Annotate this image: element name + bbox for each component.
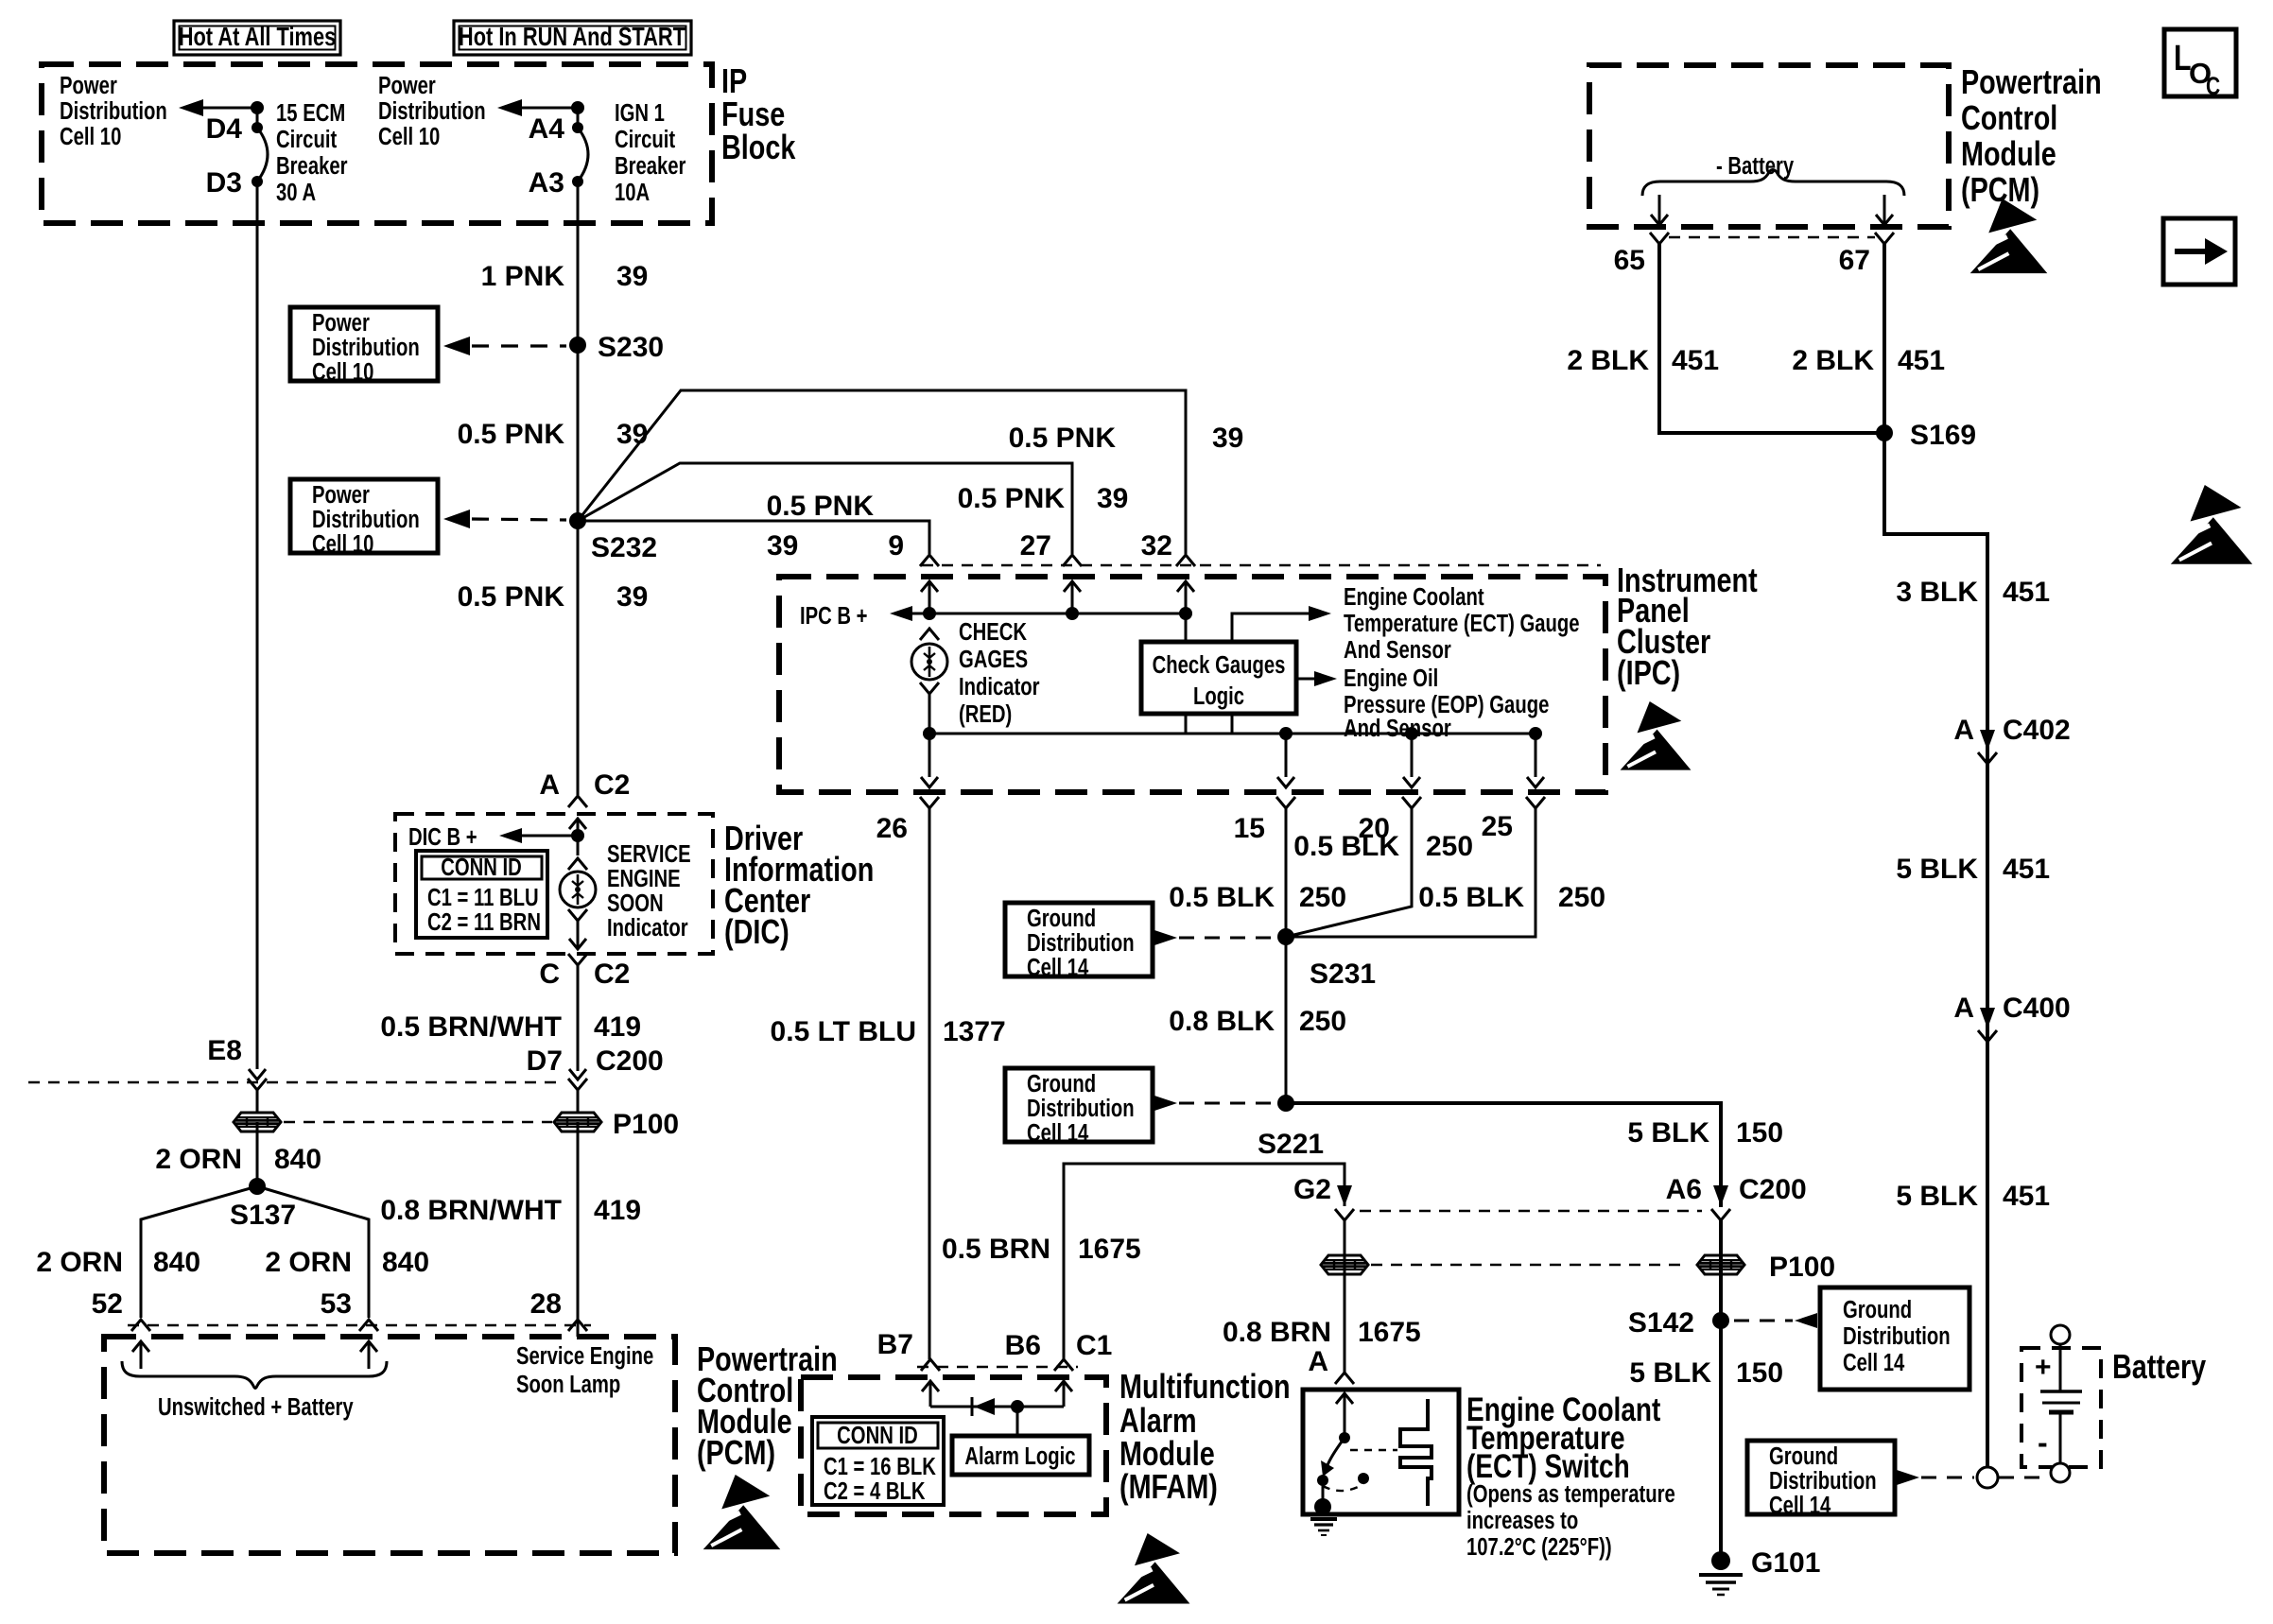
svg-text:Power: Power	[312, 481, 370, 509]
svg-text:39: 39	[767, 530, 798, 561]
svg-text:15: 15	[1234, 813, 1265, 844]
svg-text:451: 451	[2003, 1181, 2050, 1212]
svg-text:Engine Coolant: Engine Coolant	[1344, 583, 1484, 611]
svg-text:Indicator: Indicator	[607, 914, 688, 942]
svg-text:C1: C1	[1076, 1330, 1112, 1361]
svg-text:Ground: Ground	[1769, 1443, 1838, 1470]
svg-text:2 ORN: 2 ORN	[155, 1144, 242, 1175]
svg-text:And Sensor: And Sensor	[1344, 715, 1451, 742]
svg-text:C2: C2	[594, 769, 630, 801]
svg-text:G101: G101	[1751, 1547, 1820, 1579]
svg-text:C2 = 11 BRN: C2 = 11 BRN	[427, 908, 541, 936]
svg-text:Control: Control	[1961, 98, 2057, 137]
svg-text:1675: 1675	[1078, 1234, 1141, 1265]
svg-text:A: A	[1953, 993, 1974, 1024]
svg-text:Cell 10: Cell 10	[378, 123, 440, 150]
svg-text:840: 840	[153, 1247, 200, 1278]
svg-text:26: 26	[876, 813, 908, 844]
svg-text:CONN ID: CONN ID	[441, 854, 522, 881]
svg-text:C: C	[539, 959, 560, 990]
svg-text:451: 451	[2003, 577, 2050, 608]
svg-text:(DIC): (DIC)	[724, 912, 789, 951]
svg-text:451: 451	[1672, 345, 1719, 376]
svg-text:Power: Power	[378, 72, 436, 99]
svg-text:C1 = 16 BLK: C1 = 16 BLK	[824, 1453, 936, 1480]
svg-text:SERVICE: SERVICE	[607, 840, 691, 868]
svg-text:G2: G2	[1293, 1174, 1331, 1205]
svg-text:E8: E8	[207, 1035, 242, 1066]
svg-text:A: A	[1308, 1346, 1328, 1377]
svg-text:1377: 1377	[943, 1016, 1006, 1047]
svg-text:Cell 10: Cell 10	[60, 123, 121, 150]
svg-text:B6: B6	[1005, 1330, 1041, 1361]
svg-text:(PCM): (PCM)	[697, 1433, 775, 1472]
svg-text:Cell 14: Cell 14	[1027, 1119, 1088, 1147]
svg-text:Breaker: Breaker	[276, 152, 347, 180]
svg-text:2 BLK: 2 BLK	[1792, 345, 1874, 376]
svg-text:C: C	[2206, 73, 2220, 101]
svg-text:0.5 BLK: 0.5 BLK	[1418, 882, 1524, 913]
svg-text:S231: S231	[1310, 959, 1376, 990]
svg-text:C2 = 4 BLK: C2 = 4 BLK	[824, 1477, 926, 1505]
svg-text:419: 419	[594, 1195, 641, 1226]
svg-text:32: 32	[1141, 530, 1172, 561]
svg-text:C200: C200	[596, 1045, 664, 1077]
svg-text:451: 451	[2003, 854, 2050, 885]
svg-text:1 PNK: 1 PNK	[481, 261, 565, 292]
svg-text:SOON: SOON	[607, 890, 664, 917]
svg-text:P100: P100	[613, 1109, 679, 1140]
svg-text:CONN ID: CONN ID	[837, 1422, 918, 1449]
svg-text:Engine Oil: Engine Oil	[1344, 665, 1438, 692]
svg-text:GAGES: GAGES	[959, 646, 1028, 673]
svg-text:5 BLK: 5 BLK	[1627, 1117, 1709, 1149]
svg-text:Distribution: Distribution	[1843, 1322, 1951, 1350]
svg-text:A: A	[539, 769, 560, 801]
svg-text:C2: C2	[594, 959, 630, 990]
svg-text:25: 25	[1482, 811, 1513, 842]
svg-text:2 ORN: 2 ORN	[265, 1247, 352, 1278]
svg-text:451: 451	[1898, 345, 1945, 376]
svg-text:Logic: Logic	[1193, 682, 1244, 710]
svg-text:Unswitched + Battery: Unswitched + Battery	[158, 1393, 354, 1421]
svg-text:250: 250	[1558, 882, 1605, 913]
svg-text:A6: A6	[1666, 1174, 1702, 1205]
svg-text:5 BLK: 5 BLK	[1896, 854, 1978, 885]
svg-text:A3: A3	[529, 167, 564, 199]
svg-text:Ground: Ground	[1843, 1296, 1912, 1323]
svg-text:Block: Block	[721, 128, 796, 166]
svg-text:0.5 PNK: 0.5 PNK	[958, 483, 1066, 514]
svg-text:250: 250	[1426, 831, 1473, 862]
svg-text:C200: C200	[1739, 1174, 1807, 1205]
svg-text:52: 52	[92, 1288, 123, 1320]
svg-text:0.5 PNK: 0.5 PNK	[1009, 423, 1117, 454]
svg-text:IGN 1: IGN 1	[615, 99, 665, 127]
svg-text:ENGINE: ENGINE	[607, 865, 681, 892]
svg-text:Distribution: Distribution	[312, 334, 420, 361]
svg-text:S221: S221	[1258, 1129, 1324, 1160]
svg-text:S230: S230	[598, 332, 664, 363]
svg-text:B7: B7	[877, 1329, 913, 1360]
svg-text:Powertrain: Powertrain	[1961, 62, 2102, 101]
svg-text:(PCM): (PCM)	[1961, 170, 2039, 209]
svg-text:C400: C400	[2003, 993, 2071, 1024]
svg-text:0.5 PNK: 0.5 PNK	[767, 491, 875, 522]
svg-text:And Sensor: And Sensor	[1344, 636, 1451, 664]
svg-text:Power: Power	[312, 309, 370, 337]
svg-text:IPC B +: IPC B +	[800, 602, 868, 630]
svg-text:Module: Module	[1961, 134, 2056, 173]
svg-text:107.2°C (225°F)): 107.2°C (225°F))	[1466, 1533, 1612, 1561]
svg-text:Battery: Battery	[2112, 1347, 2206, 1386]
svg-text:250: 250	[1299, 882, 1346, 913]
svg-text:S137: S137	[230, 1200, 296, 1231]
svg-text:2 ORN: 2 ORN	[36, 1247, 123, 1278]
svg-text:Distribution: Distribution	[1769, 1467, 1877, 1494]
svg-text:Hot In RUN And START: Hot In RUN And START	[459, 22, 686, 51]
svg-text:1675: 1675	[1358, 1317, 1421, 1348]
svg-text:5 BLK: 5 BLK	[1629, 1357, 1711, 1389]
svg-text:67: 67	[1839, 245, 1870, 276]
svg-text:27: 27	[1020, 530, 1051, 561]
svg-text:5 BLK: 5 BLK	[1896, 1181, 1978, 1212]
svg-text:Hot At All Times: Hot At All Times	[179, 22, 337, 51]
svg-text:419: 419	[594, 1011, 641, 1043]
svg-text:Ground: Ground	[1027, 1070, 1096, 1097]
svg-text:(RED): (RED)	[959, 700, 1012, 728]
svg-text:P100: P100	[1769, 1252, 1835, 1283]
svg-text:Distribution: Distribution	[1027, 1095, 1135, 1122]
svg-text:840: 840	[382, 1247, 429, 1278]
svg-text:+: +	[2035, 1352, 2052, 1383]
svg-text:(IPC): (IPC)	[1617, 653, 1680, 692]
svg-text:0.5 LT BLU: 0.5 LT BLU	[771, 1016, 916, 1047]
svg-text:Indicator: Indicator	[959, 673, 1040, 700]
svg-text:Service Engine: Service Engine	[516, 1342, 653, 1370]
svg-text:0.8 BLK: 0.8 BLK	[1169, 1006, 1275, 1037]
svg-text:S142: S142	[1628, 1307, 1694, 1339]
svg-text:39: 39	[616, 261, 648, 292]
svg-text:Temperature (ECT) Gauge: Temperature (ECT) Gauge	[1344, 610, 1580, 637]
svg-text:(MFAM): (MFAM)	[1119, 1467, 1218, 1506]
svg-text:Ground: Ground	[1027, 905, 1096, 932]
svg-text:S232: S232	[591, 532, 657, 563]
svg-text:39: 39	[616, 581, 648, 613]
svg-text:0.5 BLK: 0.5 BLK	[1293, 831, 1399, 862]
svg-text:DIC B +: DIC B +	[408, 823, 477, 851]
svg-text:Check Gauges: Check Gauges	[1153, 651, 1286, 679]
svg-text:Breaker: Breaker	[615, 152, 685, 180]
svg-text:S169: S169	[1910, 420, 1976, 451]
svg-text:0.8 BRN/WHT: 0.8 BRN/WHT	[380, 1195, 562, 1226]
svg-text:0.5 BRN: 0.5 BRN	[942, 1234, 1050, 1265]
svg-text:C402: C402	[2003, 715, 2071, 746]
svg-text:Cell 10: Cell 10	[312, 530, 373, 558]
svg-text:39: 39	[616, 419, 648, 450]
svg-text:39: 39	[1097, 483, 1128, 514]
svg-text:15 ECM: 15 ECM	[276, 99, 345, 127]
svg-text:39: 39	[1212, 423, 1243, 454]
svg-text:Distribution: Distribution	[1027, 929, 1135, 957]
svg-text:Alarm Logic: Alarm Logic	[964, 1443, 1075, 1470]
svg-text:9: 9	[888, 530, 904, 561]
svg-text:28: 28	[530, 1288, 562, 1320]
svg-text:10A: 10A	[615, 179, 650, 206]
svg-text:D4: D4	[206, 113, 243, 145]
svg-text:2 BLK: 2 BLK	[1567, 345, 1649, 376]
svg-text:- Battery: - Battery	[1716, 152, 1794, 180]
svg-text:Circuit: Circuit	[615, 126, 675, 153]
svg-text:(Opens as temperature: (Opens as temperature	[1466, 1480, 1675, 1508]
svg-text:-: -	[2038, 1425, 2048, 1460]
svg-text:Distribution: Distribution	[312, 506, 420, 533]
svg-text:A4: A4	[529, 113, 565, 145]
svg-text:Cell 14: Cell 14	[1769, 1492, 1831, 1519]
svg-text:250: 250	[1299, 1006, 1346, 1037]
svg-text:D7: D7	[527, 1045, 563, 1077]
svg-text:150: 150	[1736, 1357, 1783, 1389]
svg-text:A: A	[1953, 715, 1974, 746]
svg-text:Power: Power	[60, 72, 117, 99]
svg-text:150: 150	[1736, 1117, 1783, 1149]
svg-text:D3: D3	[206, 167, 242, 199]
svg-text:0.5 PNK: 0.5 PNK	[458, 419, 565, 450]
svg-text:0.5 BRN/WHT: 0.5 BRN/WHT	[380, 1011, 562, 1043]
svg-text:840: 840	[274, 1144, 321, 1175]
svg-text:C1 = 11 BLU: C1 = 11 BLU	[427, 884, 539, 911]
svg-text:65: 65	[1614, 245, 1645, 276]
svg-text:0.8 BRN: 0.8 BRN	[1223, 1317, 1331, 1348]
svg-text:CHECK: CHECK	[959, 618, 1027, 646]
svg-text:Circuit: Circuit	[276, 126, 337, 153]
svg-text:Distribution: Distribution	[378, 97, 486, 125]
svg-text:Distribution: Distribution	[60, 97, 167, 125]
svg-text:3 BLK: 3 BLK	[1896, 577, 1978, 608]
svg-text:Cell 14: Cell 14	[1843, 1349, 1904, 1376]
svg-text:increases to: increases to	[1466, 1507, 1578, 1534]
svg-text:Cell 14: Cell 14	[1027, 954, 1088, 981]
svg-text:53: 53	[321, 1288, 352, 1320]
svg-text:Soon Lamp: Soon Lamp	[516, 1371, 620, 1398]
svg-text:0.5 BLK: 0.5 BLK	[1169, 882, 1275, 913]
svg-text:30 A: 30 A	[276, 179, 316, 206]
svg-text:Cell 10: Cell 10	[312, 358, 373, 386]
svg-text:0.5 PNK: 0.5 PNK	[458, 581, 565, 613]
svg-text:Multifunction: Multifunction	[1119, 1367, 1291, 1406]
